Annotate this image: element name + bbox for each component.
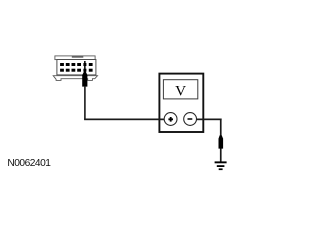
connector C1 top latch rim (55, 56, 95, 60)
ground lead terminal (black plug) (219, 135, 224, 148)
wire from minus terminal to right corner (197, 119, 222, 121)
wire horizontal to voltmeter plus terminal (84, 119, 164, 121)
ground symbol bar 2 (217, 165, 225, 167)
voltmeter minus terminal circle (184, 113, 197, 126)
connector C1 pin row bottom (60, 69, 93, 72)
voltmeter plus terminal circle (164, 113, 177, 126)
wire down to ground (220, 119, 222, 162)
plus sign (168, 117, 173, 122)
ground symbol bar 3 (219, 168, 223, 170)
ground symbol bar 1 (215, 161, 227, 163)
connector C1 pin row top (60, 63, 93, 66)
minus sign (188, 118, 193, 120)
connector C1 latch notch line (72, 56, 84, 58)
test probe body (black plug) (82, 72, 87, 87)
connector C1 bottom skirt (53, 76, 97, 81)
voltmeter display window (163, 80, 197, 99)
connector C1 body (57, 60, 96, 75)
test probe pin stem through pins (84, 61, 86, 75)
svg-text:V: V (175, 82, 186, 99)
voltmeter U1 outer box (159, 74, 203, 132)
wire from probe down (84, 87, 86, 120)
svg-text:N0062401: N0062401 (7, 158, 51, 169)
